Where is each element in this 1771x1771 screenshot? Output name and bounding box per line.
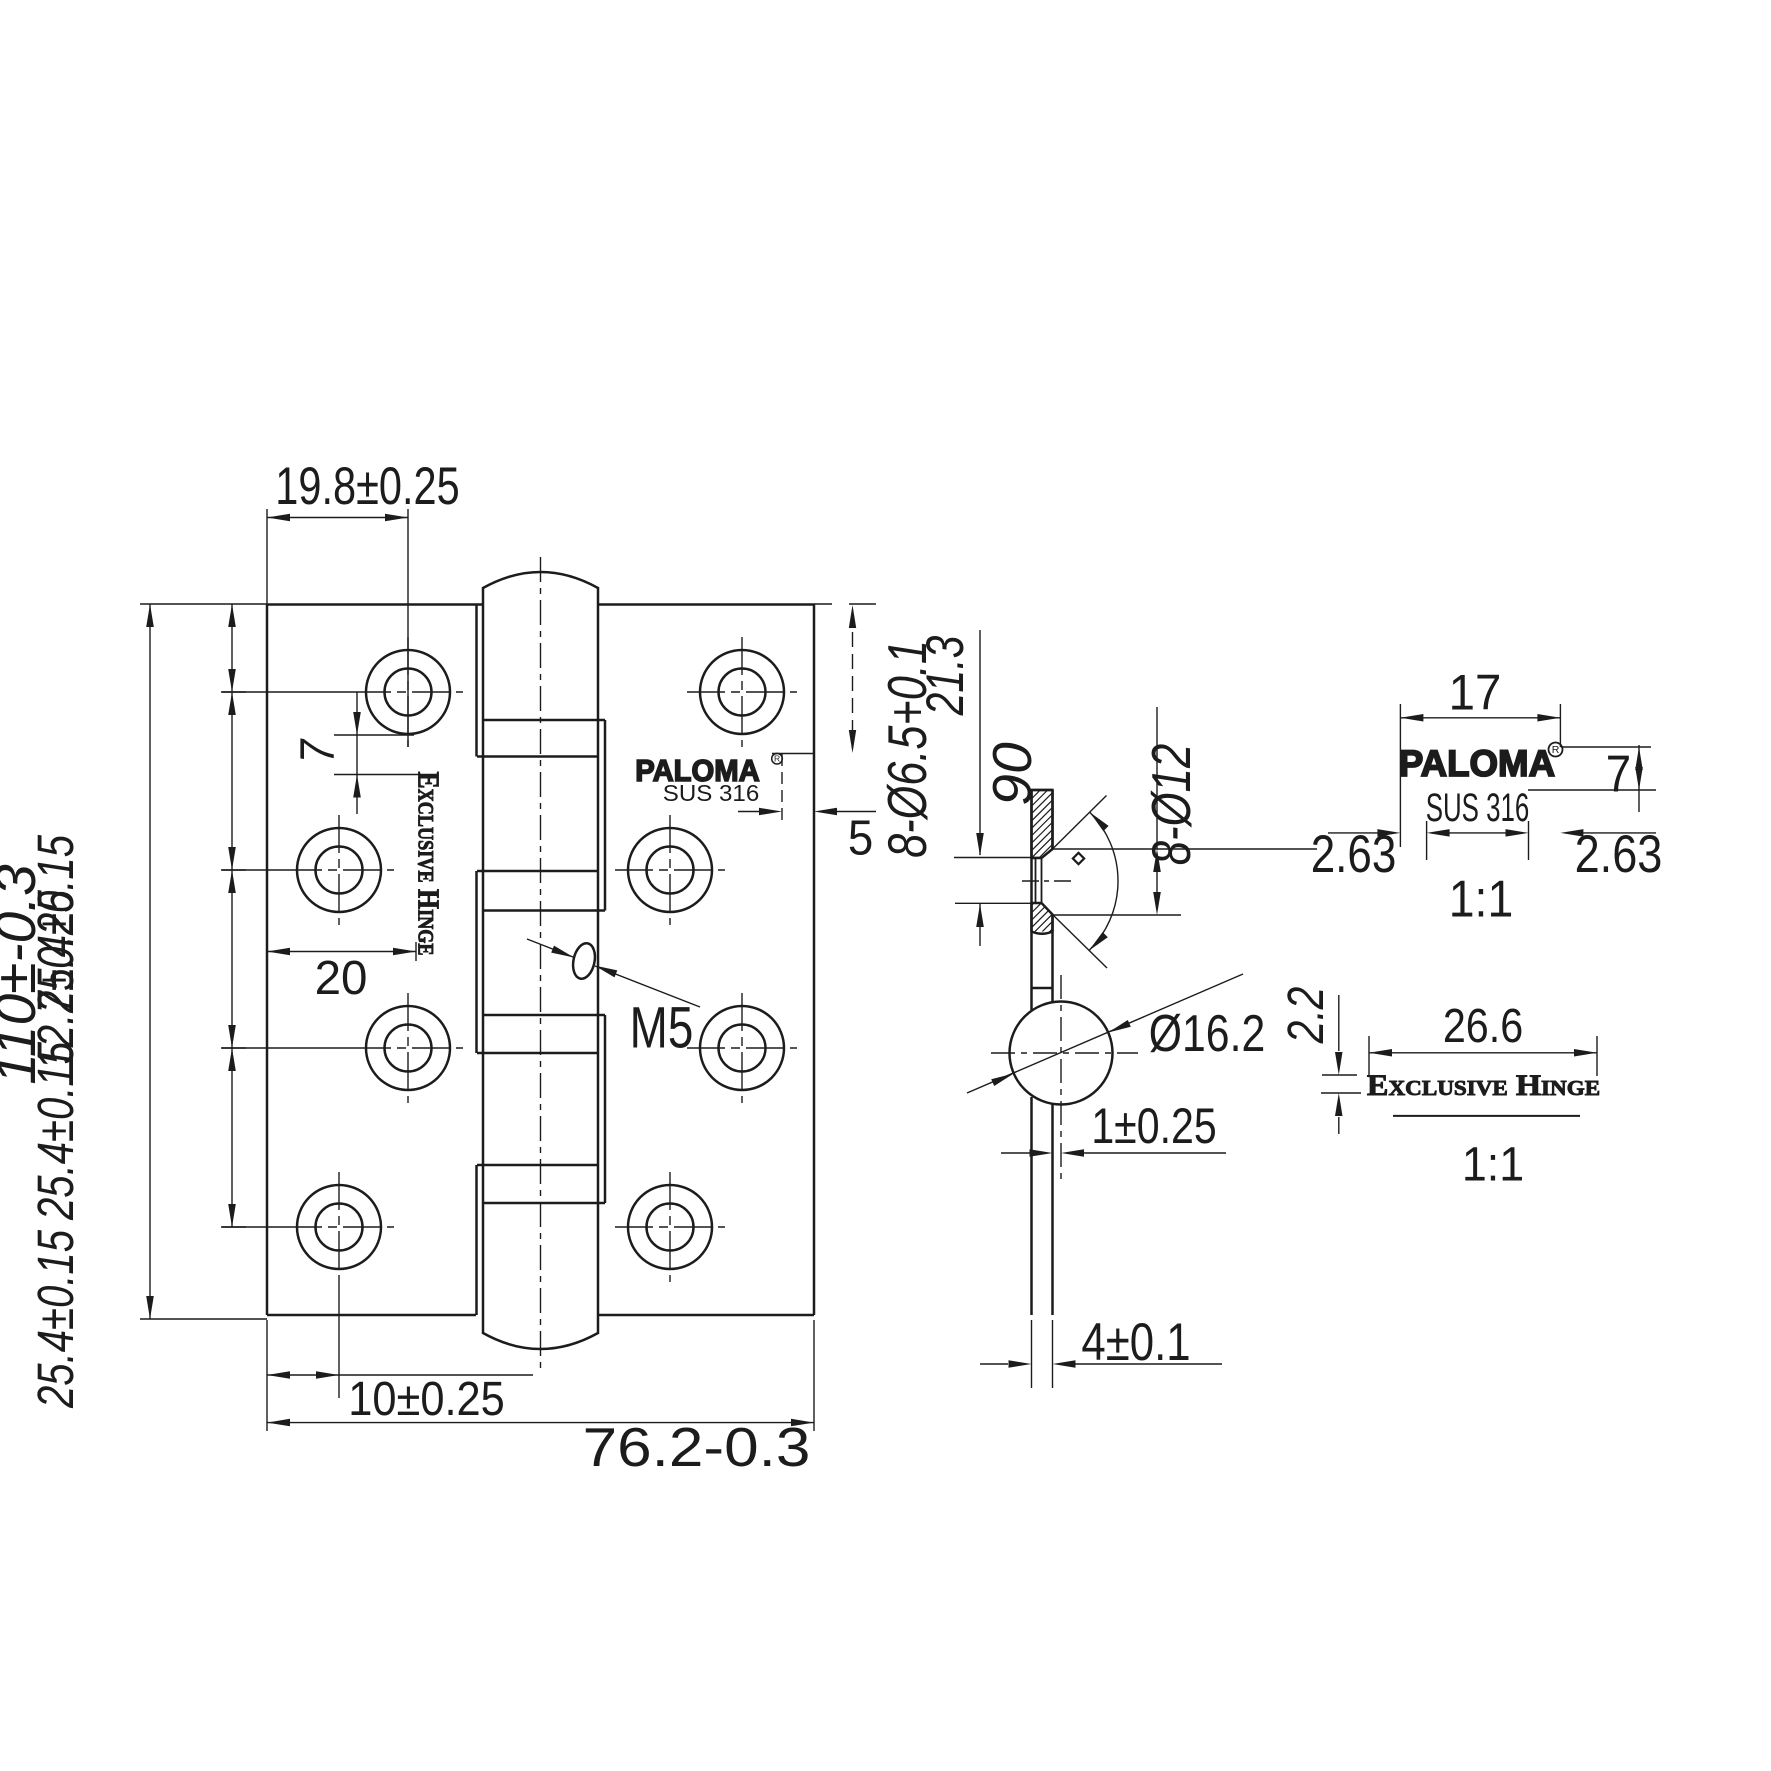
svg-text:1±0.25: 1±0.25	[1091, 1098, 1216, 1154]
top edge extension line	[814, 603, 876, 605]
screw hole 5 crosshair	[353, 993, 463, 1103]
detail 1 dimension text 7	[1606, 746, 1631, 803]
detail 2 dimension text 26.6	[1443, 998, 1523, 1053]
dimension text 10±0.25	[348, 1371, 505, 1426]
overall height text 110±-0.3 (rotated)	[0, 864, 48, 1085]
section hatch upper block	[884, 790, 1241, 858]
knuckle division line 5	[483, 1014, 605, 1017]
detail 1 dimension text 2.63 left	[1311, 825, 1397, 884]
dimension line 20	[267, 948, 416, 955]
knuckle right step line	[604, 720, 607, 1203]
chain text 25.4±0.15 c (rotated)	[26, 1230, 84, 1409]
90 degree arc	[1089, 812, 1118, 951]
extension line right edge bottom	[813, 1320, 815, 1431]
countersink bore lines	[1036, 858, 1042, 903]
dimension leader Ø16.2	[967, 974, 1243, 1093]
svg-text:25.4±0.15: 25.4±0.15	[26, 1230, 84, 1409]
screw hole 5 at (408,1048)	[366, 1006, 450, 1090]
detail 1 extension line left	[1399, 704, 1401, 847]
svg-text:4±0.1: 4±0.1	[1081, 1313, 1190, 1372]
extension line left edge bottom	[266, 1320, 268, 1431]
detail 1 extension line right	[1559, 704, 1561, 747]
dimension text 19.8±0.25	[275, 457, 459, 516]
dimension line 21.3	[976, 630, 984, 856]
screw hole 7 crosshair	[284, 1172, 394, 1282]
row 2 extension line	[222, 869, 284, 871]
dimension 5 line and arrows	[738, 808, 876, 815]
screw hole 6 at (742,1048)	[700, 1006, 784, 1090]
knuckle division line 2	[477, 755, 598, 758]
M5 leader line	[527, 939, 700, 1007]
svg-text:R: R	[1552, 744, 1560, 756]
svg-text:7: 7	[290, 738, 344, 763]
dimension text 90 (rotated)	[982, 742, 1042, 805]
dimension 10±0.25 line	[267, 1371, 533, 1379]
hinge pin circle (side view)	[1010, 1002, 1113, 1105]
dimension 7 line and arrows	[353, 692, 361, 814]
side view plate left edge	[1030, 790, 1033, 1315]
extension line hole column 339 bottom	[338, 1282, 340, 1398]
detail 2 EXCLUSIVE HINGE text	[1367, 1069, 1600, 1101]
knuckle division line 1	[483, 719, 605, 722]
dimension text 76.2-0.3	[583, 1418, 811, 1479]
dimension 4±0.1 line	[980, 1360, 1222, 1368]
screw hole 4 at (670,870)	[628, 828, 712, 912]
extension lines plate thickness	[1032, 1320, 1053, 1388]
dimension text 1±0.25	[1091, 1098, 1216, 1154]
screw hole 8 at (670,1227)	[628, 1185, 712, 1269]
dimension text 8-Ø12 (rotated)	[1140, 744, 1202, 866]
detail 1 SUS extension lines	[1427, 821, 1529, 860]
section hatch lower block	[884, 890, 1218, 935]
dimension text 21.3 (rotated)	[916, 636, 975, 717]
detail 2 dimension 2.2 lines	[1321, 995, 1361, 1134]
svg-text:7: 7	[1606, 746, 1631, 803]
svg-text:20: 20	[315, 951, 368, 1006]
dimension 76.2-0.3 line	[267, 1419, 814, 1427]
M5 screw hole oval on barrel	[570, 941, 598, 981]
detail 1 dimension text 2.63 right	[1575, 825, 1663, 884]
svg-text:Exclusive Hinge: Exclusive Hinge	[411, 771, 445, 955]
svg-text:1:1: 1:1	[1462, 1137, 1524, 1191]
plate bottom edge extension left	[140, 1318, 267, 1320]
knuckle tick side view	[1032, 987, 1053, 990]
knuckle division line 3	[477, 870, 598, 873]
svg-text:76.2-0.3: 76.2-0.3	[583, 1418, 811, 1479]
chain text 25.4±0.15 a (rotated)	[26, 835, 84, 1014]
svg-text:5: 5	[848, 811, 873, 866]
bore extension line bottom	[955, 902, 1042, 904]
svg-text:2.2: 2.2	[1277, 987, 1334, 1045]
dimension 1±0.25 line	[1001, 1149, 1226, 1157]
svg-text:19.8±0.25: 19.8±0.25	[275, 457, 459, 516]
detail 1 SUS 316 text	[1426, 787, 1530, 831]
dimension text 4±0.1	[1081, 1313, 1190, 1372]
chain text 12.7±0.25 (rotated)	[26, 890, 84, 1070]
row 3 extension line	[222, 1047, 353, 1049]
extension line hole column 408	[407, 509, 409, 747]
svg-text:25.4±0.15: 25.4±0.15	[26, 1042, 84, 1221]
svg-text:Ø16.2: Ø16.2	[1149, 1005, 1265, 1063]
knuckle left step line	[475, 604, 478, 1315]
knuckle division line 4	[483, 909, 605, 912]
svg-text:Exclusive Hinge: Exclusive Hinge	[1367, 1069, 1600, 1101]
hinge leaf plate outline (front view)	[267, 604, 814, 1315]
knuckle division line 8	[483, 1202, 605, 1205]
svg-text:10±0.25: 10±0.25	[348, 1371, 505, 1426]
detail 2 dimension line 26.6	[1369, 1049, 1597, 1057]
countersink angle line upper	[1053, 796, 1107, 850]
small diamond mark	[1073, 853, 1084, 864]
side view plate right edge	[1051, 790, 1054, 1315]
screw hole 1 at (408,692)	[366, 650, 450, 734]
dimension text 20	[315, 951, 368, 1006]
pin circle centerlines	[991, 975, 1138, 1180]
row 1 extension line	[222, 691, 353, 693]
screw hole 3 crosshair	[284, 815, 394, 925]
bore extension line top	[954, 857, 1042, 859]
PALOMA logo (front view)	[635, 753, 782, 788]
countersink angle line lower	[1053, 915, 1108, 969]
svg-text:8-Ø12: 8-Ø12	[1140, 744, 1202, 866]
svg-text:90: 90	[982, 742, 1042, 805]
screw hole 1 crosshair	[353, 637, 463, 747]
hole centerline side view	[1022, 880, 1071, 882]
svg-text:SUS 316: SUS 316	[1426, 787, 1530, 831]
overall height dimension line	[146, 604, 154, 1319]
dashed dimension line with arrows	[849, 605, 856, 753]
dimension 7 ticks	[334, 735, 419, 775]
svg-text:1:1: 1:1	[1449, 871, 1513, 928]
countersink horizontal line lower	[1053, 914, 1182, 916]
detail 1 dimension 2.63 line	[1328, 829, 1656, 837]
svg-text:21.3: 21.3	[916, 636, 975, 717]
detail 1 dimension line 17	[1400, 714, 1560, 722]
screw hole 8 crosshair	[615, 1172, 725, 1282]
detail 2 underline	[1393, 1115, 1580, 1117]
detail 2 dimension text 2.2 (rotated)	[1277, 987, 1334, 1045]
screw hole 7 at (339,1227)	[297, 1185, 381, 1269]
tick line inside plate	[772, 753, 814, 755]
screw hole 4 crosshair	[615, 815, 725, 925]
side view plate top edge	[1032, 789, 1053, 792]
detail 1 PALOMA logo	[1399, 742, 1563, 784]
detail 2 extension lines	[1369, 1036, 1597, 1076]
detail 1 scale text 1:1	[1449, 871, 1513, 928]
screw hole 2 at (742,692)	[700, 650, 784, 734]
svg-text:SUS 316: SUS 316	[663, 781, 759, 806]
plate top edge extension left	[140, 603, 267, 605]
countersink horizontal line upper	[1053, 848, 1318, 850]
svg-text:2.63: 2.63	[1575, 825, 1663, 884]
knuckle division line 7	[477, 1164, 598, 1167]
dimension text Ø16.2	[1149, 1005, 1265, 1063]
screw hole 3 at (339,870)	[297, 828, 381, 912]
SUS 316 text (front view)	[663, 781, 759, 806]
dashed line at logo right	[781, 754, 783, 826]
dimension line 8-Ø12	[1153, 707, 1161, 915]
svg-text:2.63: 2.63	[1311, 825, 1397, 884]
detail 1 dimension 7	[1528, 745, 1656, 812]
chain ticks	[221, 692, 246, 1227]
screw hole 2 crosshair	[687, 637, 797, 747]
svg-text:PALOMA: PALOMA	[1399, 742, 1555, 784]
knuckle division line 6	[477, 1052, 598, 1055]
dimension line 19.8	[267, 514, 408, 521]
screw hole 6 crosshair	[687, 993, 797, 1103]
dimension text 5	[848, 811, 873, 866]
chain text 25.4±0.15 b (rotated)	[26, 1042, 84, 1221]
detail 1 dimension text 17	[1449, 665, 1502, 720]
extension line at text edge	[415, 942, 417, 961]
label M5	[630, 996, 694, 1060]
dimension text 8-Ø6.5+0.1 (rotated)	[877, 640, 938, 858]
lower tick and up arrow	[976, 904, 984, 946]
svg-text:17: 17	[1449, 665, 1502, 720]
dimension text 7 (rotated)	[290, 738, 344, 763]
hinge barrel (knuckle column)	[483, 572, 598, 1349]
svg-text:M5: M5	[630, 996, 694, 1060]
engraved text EXCLUSIVE HINGE (front view)	[411, 771, 445, 955]
detail 2 scale text 1:1	[1462, 1137, 1524, 1191]
extension line left edge top	[266, 509, 268, 604]
svg-text:R: R	[774, 754, 780, 764]
row 4 extension line	[222, 1226, 284, 1228]
svg-text:26.6: 26.6	[1443, 998, 1523, 1053]
hole chain dimension line	[228, 604, 236, 1227]
barrel centerline	[540, 557, 542, 1374]
